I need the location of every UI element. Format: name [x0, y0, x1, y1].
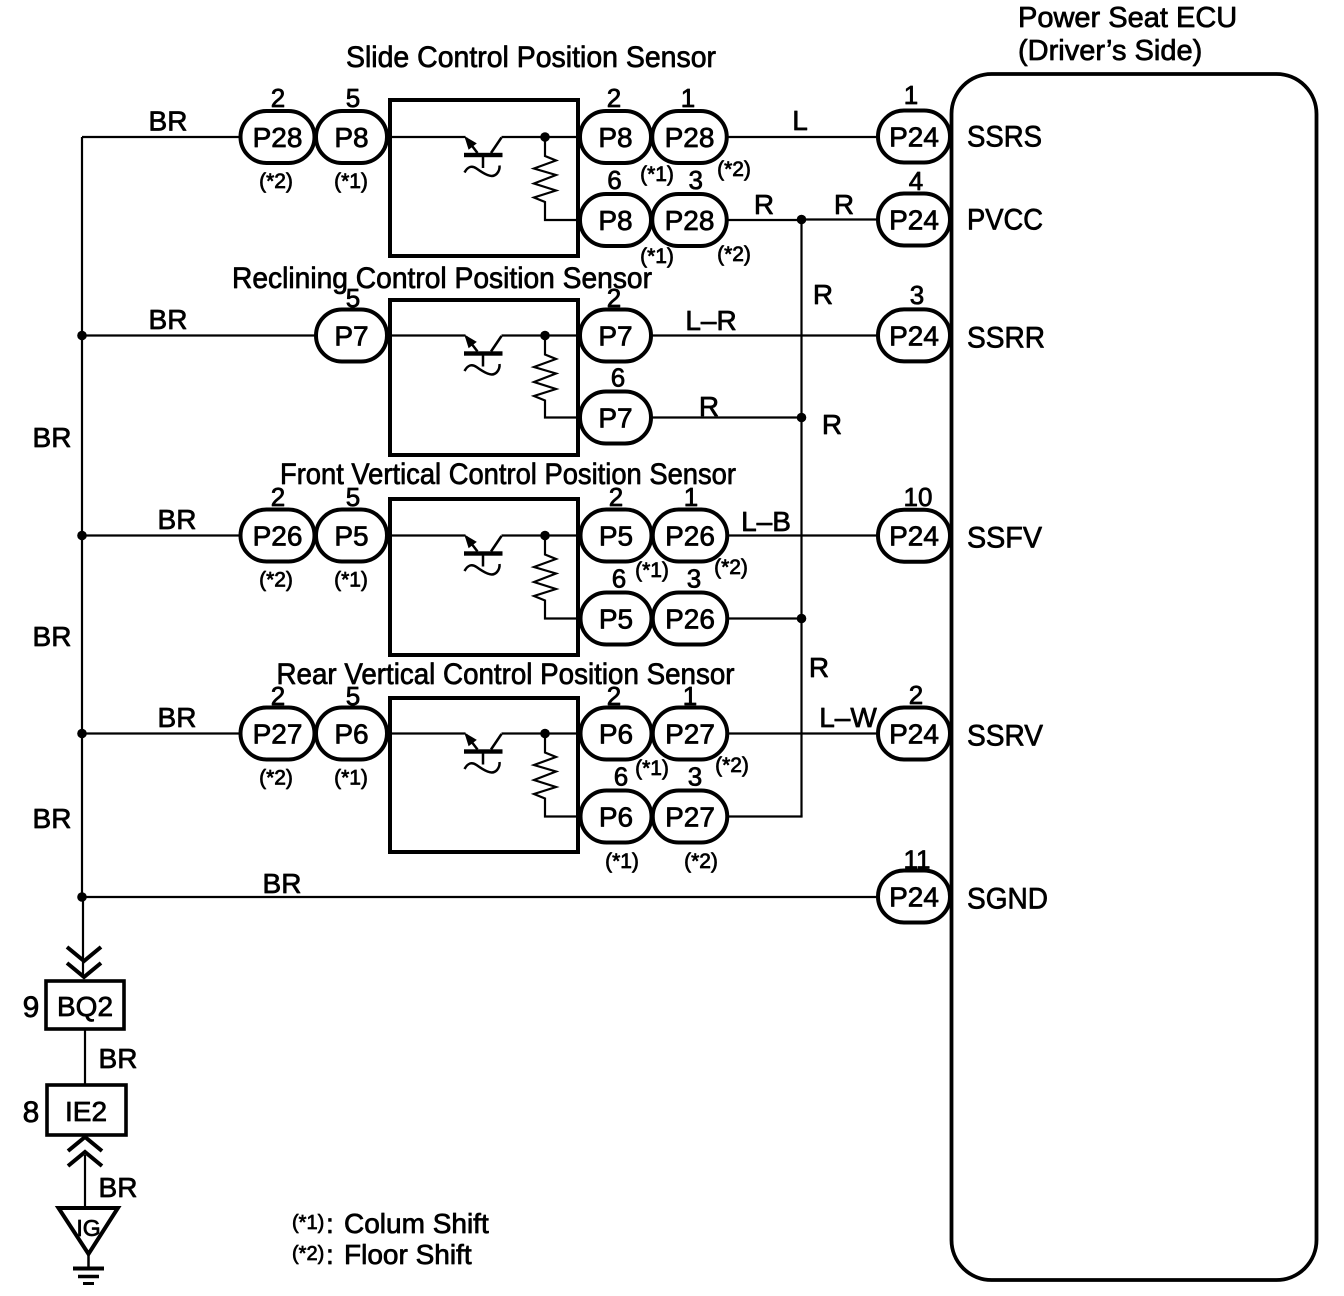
connector P24 pin 10 [878, 510, 950, 562]
svg-text:IG: IG [76, 1215, 100, 1241]
ground symbol [87, 1254, 90, 1268]
svg-text:BR: BR [99, 1043, 138, 1074]
svg-text:R: R [822, 409, 842, 440]
wire frontvert internal top [392, 534, 578, 536]
svg-text:(*2): (*2) [717, 158, 751, 181]
svg-text:P27: P27 [665, 802, 715, 833]
resistor reclining [534, 336, 578, 418]
svg-text:IE2: IE2 [65, 1096, 107, 1127]
wire P26-3 to trunk [727, 617, 801, 619]
svg-text:(*2): (*2) [259, 569, 293, 592]
transistor symbol slide sensor element [464, 136, 503, 176]
wire bus to rearvert connector [82, 732, 241, 734]
svg-text:R: R [813, 279, 833, 310]
node frontvert junction [540, 531, 550, 541]
ECU box Power Seat ECU [952, 74, 1317, 1280]
svg-text:BR: BR [33, 422, 72, 453]
svg-text:P26: P26 [665, 604, 715, 635]
svg-text:Colum Shift: Colum Shift [344, 1208, 489, 1239]
connector P24 pin 1 [878, 111, 950, 163]
svg-text:(*1): (*1) [334, 569, 368, 592]
svg-text:P5: P5 [334, 521, 368, 552]
svg-text:BR: BR [149, 106, 188, 137]
svg-text:P24: P24 [889, 320, 939, 351]
svg-text:L–W: L–W [819, 702, 877, 733]
connector P24 pin 3 [878, 309, 950, 361]
resistor slide [534, 137, 578, 220]
connector P28 left slide [241, 111, 315, 163]
svg-text:BR: BR [263, 868, 302, 899]
connector P8 right row-a slide [580, 111, 651, 163]
connector P8 left slide [316, 111, 387, 163]
wire IE2 to IG [84, 1155, 86, 1210]
svg-text:(*1): (*1) [635, 757, 669, 780]
wire P28-1 to P24-1 L [727, 136, 878, 138]
svg-text:3: 3 [910, 280, 924, 310]
wire P7-2 to P24-3 L-R [651, 334, 878, 336]
svg-text:3: 3 [688, 165, 702, 195]
connector P7 right row-a reclining [580, 310, 651, 362]
connector P7 left reclining [316, 310, 387, 362]
wire bus lower segment to arrow [82, 897, 84, 977]
power source IG triangle [59, 1208, 118, 1254]
svg-text:P24: P24 [889, 882, 939, 913]
svg-text:(*1): (*1) [334, 767, 368, 790]
svg-text:3: 3 [688, 762, 702, 792]
svg-text:BQ2: BQ2 [57, 991, 113, 1022]
svg-text:Slide Control Position Sensor: Slide Control Position Sensor [346, 41, 716, 74]
node reclining junction [540, 331, 550, 341]
svg-text:Power Seat ECU: Power Seat ECU [1018, 2, 1237, 34]
resistor frontvert [534, 536, 578, 619]
svg-text:SGND: SGND [967, 883, 1048, 916]
connector P8 right row-b slide [580, 194, 651, 246]
svg-text:(*2): (*2) [292, 1243, 324, 1265]
svg-text:8: 8 [23, 1096, 40, 1129]
svg-text:10: 10 [904, 482, 933, 512]
svg-text:6: 6 [614, 762, 628, 792]
svg-text:P5: P5 [599, 521, 633, 552]
svg-text:(*1): (*1) [334, 170, 368, 193]
component BQ2 [46, 981, 124, 1029]
svg-text:P7: P7 [598, 403, 632, 434]
svg-text:BR: BR [33, 803, 72, 834]
connector P26 right row-b frontvert [653, 593, 728, 645]
connector P28 right row-b slide [652, 194, 727, 246]
svg-text:P8: P8 [598, 122, 632, 153]
connector P6 right row-a rearvert [581, 708, 652, 760]
svg-text:5: 5 [346, 283, 360, 313]
svg-text:P24: P24 [889, 122, 939, 153]
svg-text:2: 2 [271, 681, 285, 711]
svg-text:(*1): (*1) [635, 559, 669, 582]
svg-text:P28: P28 [665, 122, 715, 153]
svg-text:P8: P8 [334, 122, 368, 153]
svg-text:2: 2 [607, 681, 621, 711]
wire SGND BR [82, 896, 878, 898]
wire P26-1 to P24-10 L-B [727, 534, 878, 536]
wire P28-3 to P24-4 R [727, 219, 802, 221]
connector P28 right row-a slide [652, 111, 727, 163]
connector P5 right row-b frontvert [581, 593, 652, 645]
wire P27-1 to P24-2 L-W [727, 732, 878, 734]
node bus-row4 junction [77, 729, 87, 739]
connector P27 left rearvert [241, 708, 315, 760]
svg-text:BR: BR [158, 702, 197, 733]
connector P26 left frontvert [241, 510, 315, 562]
connector P6 left rearvert [316, 708, 387, 760]
node bus-row3 junction [77, 531, 87, 541]
wire bus to frontvert connector [82, 534, 241, 536]
wire left BR bus vertical [81, 137, 83, 897]
transistor symbol reclining sensor element [464, 335, 503, 375]
svg-text:PVCC: PVCC [967, 204, 1043, 237]
svg-text:1: 1 [904, 80, 918, 110]
svg-text:P6: P6 [599, 802, 633, 833]
svg-text:SSRS: SSRS [967, 121, 1042, 154]
connector P6 right row-b rearvert [581, 791, 652, 843]
arrow double chevron down [67, 947, 101, 977]
wire bus to reclining connector [82, 334, 316, 336]
svg-text:BR: BR [99, 1172, 138, 1203]
svg-text:(Driver’s Side): (Driver’s Side) [1018, 35, 1202, 67]
wire BQ2 to IE2 [84, 1029, 86, 1085]
resistor rearvert [534, 734, 578, 817]
svg-text:Reclining Control Position Sen: Reclining Control Position Sensor [232, 262, 652, 295]
transistor symbol frontvert sensor element [464, 535, 503, 575]
wire rearvert internal top [392, 732, 578, 734]
svg-text:3: 3 [687, 564, 701, 594]
svg-text:P6: P6 [599, 719, 633, 750]
svg-text:2: 2 [607, 283, 621, 313]
svg-text:P7: P7 [598, 321, 632, 352]
svg-text:P8: P8 [598, 205, 632, 236]
node bus-row2 junction [77, 331, 87, 341]
svg-text:2: 2 [609, 482, 623, 512]
svg-text:BR: BR [33, 621, 72, 652]
svg-text:R: R [809, 652, 829, 683]
svg-text:(*1): (*1) [292, 1212, 324, 1234]
svg-text:BR: BR [158, 504, 197, 535]
node bus-SGND junction [77, 892, 87, 902]
wire bus to slide connector [82, 136, 241, 138]
sensor box reclining [390, 300, 578, 455]
connector P24 pin 2 [878, 708, 950, 760]
svg-text:R: R [699, 391, 719, 422]
svg-text:2: 2 [271, 482, 285, 512]
svg-text:P27: P27 [253, 719, 303, 750]
node trunk PVCC [797, 215, 807, 225]
svg-text:5: 5 [346, 83, 360, 113]
wire reclining internal top [392, 334, 578, 336]
sensor box slide [390, 100, 578, 256]
connector P5 right row-a frontvert [581, 510, 652, 562]
svg-text:P6: P6 [334, 719, 368, 750]
component IE2 [47, 1085, 126, 1135]
svg-text:(*1): (*1) [640, 163, 674, 186]
sensor box frontvert [390, 499, 578, 655]
arrow double chevron up [68, 1137, 102, 1166]
svg-text:5: 5 [346, 482, 360, 512]
connector P24 pin 4 [878, 194, 950, 246]
connector P24 pin 11 [878, 871, 950, 923]
svg-text:6: 6 [607, 165, 621, 195]
transistor symbol rearvert sensor element [464, 733, 503, 773]
node trunk P7-6 [797, 413, 807, 423]
connector P5 left frontvert [316, 510, 387, 562]
svg-text:L: L [792, 105, 808, 136]
wire P27-3 to trunk corner [727, 815, 802, 817]
svg-text:P24: P24 [889, 719, 939, 750]
svg-text:BR: BR [149, 304, 188, 335]
svg-text:1: 1 [681, 83, 695, 113]
svg-text:5: 5 [346, 681, 360, 711]
connector P7 right row-b reclining [580, 392, 651, 444]
svg-text:1: 1 [683, 681, 697, 711]
wire P7-6 to trunk [651, 416, 802, 418]
svg-text:R: R [754, 189, 774, 220]
svg-text:SSRR: SSRR [967, 322, 1045, 355]
svg-text:P24: P24 [889, 205, 939, 236]
svg-text:2: 2 [909, 680, 923, 710]
svg-text:P26: P26 [253, 521, 303, 552]
svg-text:SSFV: SSFV [967, 522, 1042, 555]
svg-text:L–B: L–B [741, 506, 791, 537]
node slide junction [540, 132, 550, 142]
svg-text:P28: P28 [665, 205, 715, 236]
connector P27 right row-a rearvert [653, 708, 728, 760]
connector P27 right row-b rearvert [653, 791, 728, 843]
svg-text:(*2): (*2) [684, 850, 718, 873]
svg-text:2: 2 [607, 83, 621, 113]
svg-text:(*2): (*2) [259, 170, 293, 193]
svg-text:9: 9 [23, 991, 40, 1024]
svg-text:P28: P28 [253, 122, 303, 153]
svg-text:SSRV: SSRV [967, 720, 1043, 753]
svg-text:11: 11 [904, 845, 931, 875]
connector P26 right row-a frontvert [653, 510, 728, 562]
svg-text::: : [326, 1239, 334, 1270]
svg-text:(*2): (*2) [717, 243, 751, 266]
svg-text:(*2): (*2) [714, 556, 748, 579]
node rearvert junction [540, 729, 550, 739]
svg-text:P7: P7 [334, 321, 368, 352]
wire trunk vertical R [800, 220, 802, 817]
svg-text:4: 4 [909, 166, 923, 196]
svg-text::: : [326, 1208, 334, 1239]
svg-text:P27: P27 [665, 719, 715, 750]
wire slide internal top [392, 136, 578, 138]
svg-text:2: 2 [271, 83, 285, 113]
svg-text:L–R: L–R [685, 305, 736, 336]
svg-text:P5: P5 [599, 604, 633, 635]
svg-text:P24: P24 [889, 521, 939, 552]
svg-text:(*1): (*1) [605, 850, 639, 873]
svg-text:6: 6 [612, 564, 626, 594]
sensor box rearvert [390, 698, 578, 852]
svg-text:1: 1 [684, 482, 698, 512]
node trunk P26-3 [797, 614, 807, 624]
svg-text:P26: P26 [665, 521, 715, 552]
svg-text:(*2): (*2) [715, 754, 749, 777]
svg-text:R: R [834, 189, 854, 220]
svg-text:6: 6 [611, 363, 625, 393]
svg-text:(*2): (*2) [259, 767, 293, 790]
svg-text:Floor Shift: Floor Shift [344, 1239, 472, 1270]
